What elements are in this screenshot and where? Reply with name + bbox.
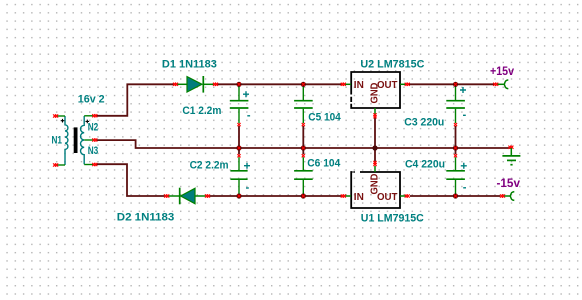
U2 GND pin x bbox=[373, 113, 376, 118]
diode D1 bbox=[173, 76, 218, 93]
wire N2 top terminal to top rail riser bbox=[96, 84, 173, 116]
U2 IN pin x bbox=[341, 83, 346, 86]
transformer T1 primary top pin bbox=[57, 115, 65, 117]
ground bbox=[502, 146, 520, 165]
svg-text:C6 104: C6 104 bbox=[307, 158, 341, 170]
transformer T1 secondary top pin x bbox=[92, 114, 97, 117]
transformer T1 primary bottom pin x bbox=[53, 163, 58, 166]
node junction C4 bottom rail bbox=[453, 193, 458, 198]
wire ground rail to C4 upper lead bbox=[455, 148, 457, 154]
svg-text:IN: IN bbox=[354, 191, 364, 203]
power port +15v bbox=[493, 80, 508, 89]
U1 OUT pin x bbox=[405, 194, 410, 197]
wire U2 GND pin to ground rail bbox=[374, 118, 376, 149]
U2 pin IN lead bbox=[345, 83, 351, 85]
capacitor C1 bbox=[230, 84, 250, 126]
U2 pin GND lead bbox=[374, 108, 376, 114]
regulator U1 LM7915C box bbox=[351, 172, 400, 208]
node junction regulators ground rail bbox=[372, 145, 377, 150]
svg-text:GND: GND bbox=[368, 82, 380, 103]
wire U2 OUT to +15v port bbox=[409, 83, 494, 85]
wire D1 cathode to U2 IN bbox=[217, 83, 341, 85]
capacitor C3 bbox=[446, 84, 466, 126]
U2 pin OUT lead bbox=[400, 83, 406, 85]
svg-text:U1 LM7915C: U1 LM7915C bbox=[361, 213, 424, 225]
node junction C4 ground rail bbox=[453, 145, 458, 150]
wire ground rail to C6 upper lead bbox=[302, 148, 304, 154]
transformer T1 secondary winding N2/N3 bbox=[81, 116, 85, 164]
transformer T1 primary bottom pin bbox=[57, 164, 65, 166]
capacitor C4 bbox=[446, 154, 467, 196]
svg-text:C3 220u: C3 220u bbox=[404, 116, 444, 128]
U1 pin IN lead bbox=[345, 195, 351, 197]
svg-text:N3: N3 bbox=[88, 145, 99, 157]
node junction C2 bottom rail bbox=[236, 193, 241, 198]
svg-text:C1 2.2m: C1 2.2m bbox=[182, 105, 221, 117]
transformer T1 primary winding N1 bbox=[65, 116, 68, 165]
power port -15v bbox=[500, 192, 514, 201]
svg-text:+15v: +15v bbox=[490, 64, 514, 78]
U1 IN pin x bbox=[341, 194, 346, 197]
svg-text:N1: N1 bbox=[52, 135, 63, 147]
svg-text:D1 1N1183: D1 1N1183 bbox=[162, 58, 217, 70]
node junction C6 ground rail bbox=[301, 145, 306, 150]
U2 OUT pin x bbox=[405, 83, 410, 86]
wire C5 lower lead to ground rail bbox=[302, 126, 304, 148]
svg-text:16v 2: 16v 2 bbox=[78, 93, 105, 105]
wire transformer center tap to ground rail bbox=[96, 140, 511, 148]
wire N3 bottom terminal to bottom rail bbox=[96, 164, 165, 196]
transformer T1 core bbox=[74, 127, 78, 153]
svg-text:N2: N2 bbox=[88, 122, 99, 134]
transformer T1 center tap pin x bbox=[92, 138, 97, 141]
svg-text:D2 1N1183: D2 1N1183 bbox=[117, 212, 175, 224]
transformer T1 secondary bottom pin x bbox=[92, 163, 97, 166]
node junction C3 top rail bbox=[453, 82, 458, 87]
transformer T1 secondary bottom pin bbox=[84, 164, 93, 166]
svg-text:C5 104: C5 104 bbox=[308, 112, 341, 124]
svg-text:U2 LM7815C: U2 LM7815C bbox=[360, 58, 424, 70]
node junction C2 ground rail bbox=[236, 145, 241, 150]
transformer T1 primary polarity dot bbox=[61, 119, 65, 123]
wire ground rail to C2 upper lead bbox=[238, 148, 240, 154]
transformer T1 primary top pin x bbox=[53, 114, 58, 117]
wire ground rail to U1 GND pin bbox=[374, 148, 376, 162]
svg-text:GND: GND bbox=[368, 173, 380, 194]
diode D2 bbox=[164, 188, 210, 205]
svg-text:-15v: -15v bbox=[497, 176, 521, 190]
svg-text:C2 2.2m: C2 2.2m bbox=[190, 160, 229, 172]
node junction C1 top rail bbox=[236, 82, 241, 87]
wire C1 lower lead to ground rail bbox=[238, 126, 240, 148]
wire D2 anode to U1 IN bbox=[210, 195, 342, 197]
capacitor C6 bbox=[294, 154, 313, 196]
capacitor C2 bbox=[230, 154, 250, 196]
capacitor C5 bbox=[294, 84, 313, 126]
svg-text:C4 220u: C4 220u bbox=[405, 158, 445, 170]
U1 GND pin x bbox=[373, 161, 376, 166]
node junction C5 top rail bbox=[301, 82, 306, 87]
node junction C6 bottom rail bbox=[301, 193, 306, 198]
U1 pin OUT lead bbox=[400, 195, 406, 197]
transformer T1 secondary top pin bbox=[84, 115, 93, 117]
transformer T1 center tap pin bbox=[84, 139, 93, 141]
svg-text:IN: IN bbox=[354, 79, 364, 91]
U1 pin GND lead bbox=[374, 166, 376, 172]
wire C3 lower lead to ground rail bbox=[455, 126, 457, 148]
wire U1 OUT to -15v port bbox=[410, 195, 500, 197]
regulator U2 LM7815C box bbox=[351, 72, 400, 108]
transformer T1 secondary polarity dot bbox=[86, 120, 90, 124]
